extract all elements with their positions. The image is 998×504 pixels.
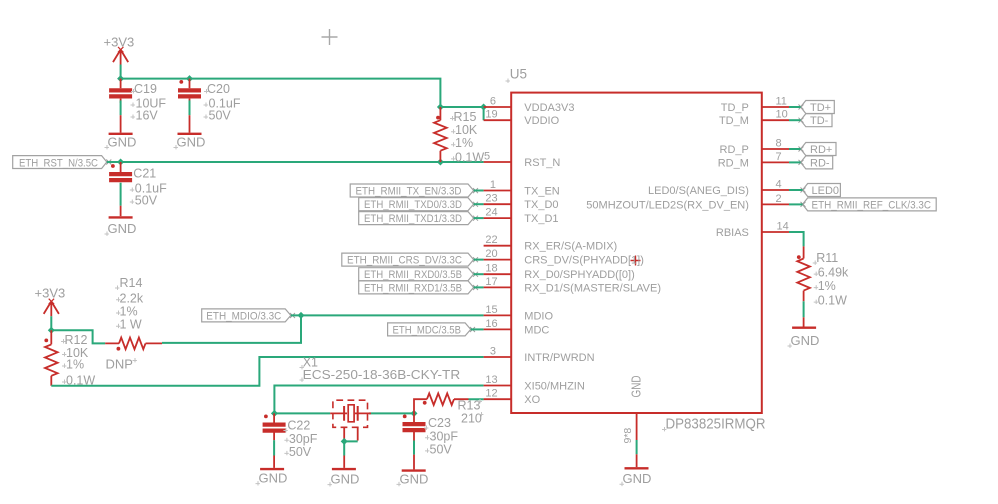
net flag ETH_MDIO/3.3C: [202, 309, 295, 322]
net flag TD+: [799, 101, 835, 114]
wire +3V3 rail to R15 / pins 6,19: [121, 65, 484, 121]
net flag ETH_RMII_TXD1/3.3D: [359, 212, 478, 225]
wire net REF_CLK: [789, 203, 803, 205]
svg-text:RX_D1/S(MASTER/SLAVE): RX_D1/S(MASTER/SLAVE): [524, 282, 661, 294]
capacitor C22: [263, 413, 318, 459]
U5 pin 14 RBIAS: [716, 220, 789, 239]
junction node crystal case: [341, 438, 348, 445]
junction node pin6/pin19: [480, 104, 487, 111]
wire net CRS_DV: [474, 259, 484, 261]
IC U5 DP83825IRMQR (Ethernet PHY) body: [506, 67, 766, 433]
wire net XO (crystal right to R13/C23): [369, 399, 484, 413]
svg-text:C20: C20: [207, 82, 230, 96]
svg-text:VDDA3V3: VDDA3V3: [524, 102, 574, 114]
svg-text:DNP: DNP: [106, 357, 133, 372]
svg-text:INTR/PWRDN: INTR/PWRDN: [524, 352, 594, 364]
ground GND (R11): [788, 317, 820, 348]
svg-text:C21: C21: [133, 167, 156, 181]
svg-text:C23: C23: [428, 416, 451, 430]
svg-text:24: 24: [485, 207, 497, 219]
resistor R11: [797, 246, 849, 307]
svg-text:12: 12: [485, 388, 497, 400]
svg-text:210: 210: [461, 411, 482, 425]
svg-text:GND: GND: [108, 135, 137, 150]
U5 pin 15 MDIO: [484, 304, 554, 323]
svg-text:GND: GND: [331, 472, 360, 487]
U5 pin 20 CRS_DV: [484, 248, 644, 267]
net flag RD+: [799, 143, 837, 156]
svg-text:TX_EN: TX_EN: [524, 186, 560, 198]
U5 pin 1 TX_EN: [484, 179, 560, 198]
svg-text:ETH_RMII_TXD1/3.3D: ETH_RMII_TXD1/3.3D: [364, 213, 462, 225]
svg-text:15: 15: [485, 304, 497, 316]
U5 pin 17 RX_D1: [484, 276, 661, 295]
svg-text:19: 19: [485, 109, 497, 121]
resistor R12 (DNP): [44, 330, 95, 387]
svg-text:1%: 1%: [818, 279, 836, 293]
junction node C20: [186, 75, 193, 82]
svg-text:R12: R12: [65, 333, 88, 347]
svg-text:GND: GND: [630, 376, 644, 398]
junction node XTAL1/C22: [271, 410, 278, 417]
net flag ETH_RMII_RXD1/3.5B: [359, 281, 478, 294]
svg-text:C22: C22: [287, 419, 310, 433]
wire C22 to GND: [273, 440, 275, 455]
wire net TX_EN: [474, 190, 484, 192]
svg-text:U5: U5: [510, 67, 527, 82]
svg-text:10: 10: [776, 109, 788, 121]
wire net TXD0: [474, 203, 484, 205]
svg-text:8: 8: [776, 137, 782, 149]
svg-text:1%: 1%: [455, 136, 473, 150]
svg-text:ETH_RMII_RXD1/3.5B: ETH_RMII_RXD1/3.5B: [364, 282, 462, 294]
svg-text:RD_M: RD_M: [718, 157, 749, 169]
U5 pin 2 50MHZOUT: [586, 193, 789, 212]
svg-text:TX_D0: TX_D0: [524, 199, 558, 211]
U5 pin 12 XO: [484, 388, 541, 407]
svg-text:TD-: TD-: [810, 115, 829, 127]
svg-text:+3V3: +3V3: [35, 286, 66, 301]
svg-text:1%: 1%: [120, 305, 138, 319]
junction node R12 top: [48, 327, 55, 334]
svg-text:DP83825IRMQR: DP83825IRMQR: [666, 416, 766, 432]
svg-text:ETH_RST_N/3.5C: ETH_RST_N/3.5C: [19, 157, 98, 169]
svg-text:MDC: MDC: [524, 324, 549, 336]
capacitor C21: [109, 162, 167, 208]
wire net MDIO: [162, 315, 484, 343]
sheet origin cross: [322, 29, 338, 45]
ground GND (C23): [397, 455, 429, 487]
svg-text:R14: R14: [120, 276, 143, 290]
svg-text:ETH_RMII_TX_EN/3.3D: ETH_RMII_TX_EN/3.3D: [356, 185, 462, 197]
svg-text:11: 11: [776, 95, 787, 107]
wire C19 to GND: [120, 100, 122, 115]
svg-text:ETH_RMII_TXD0/3.3D: ETH_RMII_TXD0/3.3D: [364, 199, 462, 211]
svg-text:3: 3: [490, 345, 496, 357]
svg-text:RX_ER/S(A-MDIX): RX_ER/S(A-MDIX): [524, 241, 617, 253]
wire U5 GND pin: [636, 440, 638, 454]
svg-text:RST_N: RST_N: [524, 157, 560, 169]
net flag ETH_RMII_REF_CLK/3.3C: [801, 198, 937, 211]
svg-text:GND: GND: [177, 135, 206, 150]
svg-text:1 W: 1 W: [120, 318, 142, 332]
svg-text:ETH_RMII_REF_CLK/3.3C: ETH_RMII_REF_CLK/3.3C: [812, 199, 932, 211]
wire +3V3 to R12 and R14: [51, 316, 105, 343]
crystal X1 ECS-250-18-36B-CKY-TR: [300, 356, 461, 442]
svg-text:ECS-250-18-36B-CKY-TR: ECS-250-18-36B-CKY-TR: [303, 367, 461, 382]
svg-text:GND: GND: [108, 221, 137, 236]
svg-text:GND: GND: [259, 471, 288, 486]
net flag ETH_RMII_TX_EN/3.3D: [350, 184, 478, 197]
wire net TD-: [789, 119, 801, 121]
U5 pin 18 RX_D0: [484, 263, 635, 282]
capacitor C20: [178, 79, 241, 123]
wire R11 to GND: [803, 301, 805, 317]
svg-text:50V: 50V: [289, 445, 312, 459]
svg-text:R11: R11: [816, 251, 838, 265]
svg-text:TD+: TD+: [810, 102, 831, 114]
svg-text:23: 23: [485, 193, 497, 205]
U5 pin 6 VDDA3V3: [484, 95, 575, 114]
wire net RD-: [789, 161, 801, 163]
wire net TD+: [789, 106, 801, 108]
svg-text:5: 5: [484, 150, 490, 162]
svg-text:50V: 50V: [135, 194, 158, 208]
svg-text:2: 2: [776, 193, 782, 205]
svg-text:GND: GND: [623, 471, 652, 486]
junction node R15 bottom: [437, 159, 444, 166]
svg-text:R15: R15: [454, 110, 477, 124]
net flag LED0: [801, 184, 841, 197]
capacitor C19: [109, 79, 166, 123]
U5 pin 22 RX_ER: [484, 234, 618, 253]
ground GND (C19): [105, 115, 137, 149]
svg-text:18: 18: [485, 263, 497, 275]
svg-text:ETH_RMII_CRS_DV/3.3C: ETH_RMII_CRS_DV/3.3C: [347, 255, 462, 267]
svg-text:4: 4: [776, 178, 782, 190]
svg-text:0.1W: 0.1W: [455, 150, 484, 164]
supply +3V3 (top left): [104, 35, 135, 65]
resistor R15: [434, 107, 484, 164]
wire net RD+: [789, 148, 801, 150]
svg-text:9*8: 9*8: [622, 428, 634, 444]
U5 pin 13 XI: [484, 374, 585, 393]
svg-text:50V: 50V: [209, 109, 232, 123]
svg-text:2.2k: 2.2k: [120, 291, 144, 305]
svg-text:0.1W: 0.1W: [818, 294, 847, 308]
U5 pin 16 MDC: [484, 318, 550, 337]
svg-text:RD-: RD-: [810, 157, 830, 169]
svg-text:XI50/MHZIN: XI50/MHZIN: [524, 381, 585, 393]
resistor R14 (DNP): [105, 276, 162, 372]
U5 pin 3 INTR/PWRDN: [484, 345, 595, 364]
svg-text:16V: 16V: [136, 109, 159, 123]
wire crystal case to GND: [344, 441, 358, 455]
svg-text:TD_P: TD_P: [721, 102, 749, 114]
wire C21 to GND: [120, 183, 122, 206]
ground GND (C21): [105, 206, 137, 236]
ground GND (C22): [256, 456, 288, 486]
svg-text:RX_D0/SPHYADD([0]): RX_D0/SPHYADD([0]): [524, 269, 634, 281]
supply +3V3 (left, R12): [35, 286, 66, 317]
svg-text:VDDIO: VDDIO: [524, 115, 559, 127]
wire net RXD0: [474, 273, 484, 275]
net flag ETH_RMII_CRS_DV/3.3C: [342, 253, 478, 266]
svg-text:GND: GND: [400, 471, 429, 486]
U5 pin 8 RD_P: [720, 137, 789, 156]
U5 pin 9 GND (bottom): [622, 413, 637, 444]
svg-text:7: 7: [776, 151, 782, 163]
capacitor C23: [403, 413, 459, 456]
svg-text:MDIO: MDIO: [524, 310, 553, 322]
U5 pin 24 TX_D1: [484, 207, 559, 226]
junction node C21 top: [117, 159, 124, 166]
svg-text:LED0/S(ANEG_DIS): LED0/S(ANEG_DIS): [648, 185, 749, 197]
svg-text:TD_M: TD_M: [719, 115, 749, 127]
net flag ETH_RST_N/3.5C: [13, 156, 112, 170]
svg-text:50V: 50V: [430, 442, 453, 456]
wire net XI (pin 13 to crystal): [274, 386, 483, 414]
svg-text:6.49k: 6.49k: [818, 266, 849, 280]
svg-text:30pF: 30pF: [430, 429, 459, 443]
svg-text:50MHZOUT/LED2S(RX_DV_EN): 50MHZOUT/LED2S(RX_DV_EN): [586, 199, 749, 211]
net flag ETH_MDC/3.5B: [388, 323, 475, 336]
net flag RD-: [799, 156, 833, 169]
svg-text:17: 17: [485, 276, 497, 288]
net flag ETH_RMII_RXD0/3.5B: [359, 268, 478, 281]
wire C23 to GND: [413, 441, 415, 455]
junction node +3V3/C19: [117, 75, 124, 82]
U5 pin 4 LED0: [648, 178, 789, 197]
svg-text:LED0: LED0: [812, 185, 840, 197]
junction node R15 top: [437, 104, 444, 111]
svg-text:ETH_MDC/3.5B: ETH_MDC/3.5B: [393, 324, 462, 336]
svg-text:C19: C19: [134, 82, 157, 96]
svg-text:1%: 1%: [66, 358, 84, 372]
svg-text:XO: XO: [524, 394, 540, 406]
svg-text:14: 14: [777, 220, 789, 232]
svg-text:1: 1: [490, 179, 496, 191]
net flag TD-: [799, 114, 833, 127]
svg-text:RD_P: RD_P: [720, 144, 749, 156]
U5 pin 7 RD_M: [718, 151, 789, 170]
svg-text:16: 16: [485, 318, 497, 330]
resistor R13: [414, 393, 483, 425]
wire net LED0: [789, 189, 803, 191]
U5 pin 10 TD_M: [719, 109, 789, 128]
net flag ETH_RMII_TXD0/3.3D: [359, 198, 478, 211]
ground GND (C20): [174, 115, 206, 149]
U5 pin 19 VDDIO: [484, 109, 560, 128]
wire net INTR/PWRDN (R12 bottom to pin 3): [51, 357, 483, 386]
svg-text:13: 13: [485, 374, 497, 386]
wire net RBIAS to R11: [789, 232, 804, 246]
U5 pin 5 RST_N: [484, 150, 561, 169]
svg-text:R13: R13: [458, 398, 481, 412]
ground GND (X1 case): [328, 456, 360, 487]
U5 pin 11 TD_P: [721, 95, 789, 114]
svg-text:20: 20: [485, 248, 497, 260]
svg-text:ETH_RMII_RXD0/3.5B: ETH_RMII_RXD0/3.5B: [364, 269, 462, 281]
svg-text:10K: 10K: [455, 123, 478, 137]
wire net TXD1: [474, 217, 484, 219]
wire C20 to GND: [189, 100, 191, 115]
svg-text:22: 22: [485, 234, 497, 246]
svg-text:30pF: 30pF: [289, 432, 318, 446]
wire net MDC: [471, 328, 484, 330]
svg-text:RD+: RD+: [810, 144, 832, 156]
svg-text:RBIAS: RBIAS: [716, 227, 749, 239]
svg-text:TX_D1: TX_D1: [524, 213, 558, 225]
svg-text:ETH_MDIO/3.3C: ETH_MDIO/3.3C: [206, 310, 281, 322]
wire net ETH_RST_N (RST_N rail): [107, 161, 484, 163]
svg-text:CRS_DV/S(PHYADD[1]): CRS_DV/S(PHYADD[1]): [524, 255, 644, 267]
junction node MDIO/R14: [298, 312, 305, 319]
junction node XTAL2/C23/R13: [411, 410, 418, 417]
svg-text:GND: GND: [791, 333, 820, 348]
svg-text:6: 6: [490, 95, 496, 107]
wire net RXD1: [474, 286, 484, 288]
ground GND (U5): [620, 454, 652, 486]
U5 pin 23 TX_D0: [484, 193, 559, 212]
